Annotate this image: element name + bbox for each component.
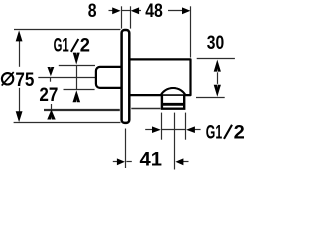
wire: ext line flange top edge [14, 29, 121, 31]
inlet stub [96, 67, 125, 88]
arrowhead: thread bottom arrow (points up) [73, 90, 81, 102]
wire: dim 27 tail below axis line [50, 77, 52, 81]
wire: dim 48 arrow tail [168, 10, 185, 12]
arrowhead: dia75 bottom arrow (points down) [16, 111, 23, 122]
wire: dia75 dim line lower [19, 88, 21, 112]
wire: dim 41 left tail [113, 161, 119, 163]
wire: outlet dim right tail [195, 129, 201, 131]
arrowhead: dim 41 left arrow (points right) [117, 158, 125, 165]
wire: outlet dim line [161, 129, 186, 131]
arrowhead: dim 27 bottom arrow (points up) [47, 110, 55, 120]
outlet connector [161, 95, 186, 109]
wall flange [122, 30, 130, 123]
arrowhead: dim 48 right arrow (points right) [182, 7, 190, 14]
arrowhead: outlet dim left arrow (points right) [152, 126, 161, 133]
arrowhead: dim 41 right arrow (points left) [175, 158, 183, 165]
wire: ext line outlet centerline [174, 113, 176, 170]
wire: thread dim line (between ext) [76, 65, 78, 89]
wire: dim line between ext lines [121, 10, 130, 12]
arrowhead: G12 leader arrow (points down) [73, 53, 80, 65]
wire: dim 27 tail above outlet ext [51, 104, 53, 109]
wire: ext line body right (top) [190, 6, 192, 57]
svg-text:41: 41 [140, 149, 163, 171]
body [129, 59, 190, 95]
wire: dim 8 left arrow tail [109, 10, 115, 12]
label G1/2 outlet [206, 122, 245, 144]
label G1/2 inlet [54, 35, 91, 57]
arrowhead: dim 30 top arrow (points up) [214, 60, 221, 72]
wire: ext line outlet left edge [161, 113, 163, 140]
svg-text:2: 2 [80, 35, 90, 57]
arrowhead: dim 8 right arrow (points left) [131, 7, 139, 14]
svg-text:30: 30 [207, 32, 225, 54]
arrowhead: outlet dim right arrow (points left) [186, 126, 195, 133]
svg-text:G1: G1 [54, 35, 69, 57]
arrowhead: dia75 top arrow (points up) [16, 30, 23, 41]
wire: ext line body bottom (right) [196, 97, 225, 99]
wire: ext line outlet right edge [185, 113, 187, 140]
wire: ext line stub top [59, 65, 95, 67]
svg-text:8: 8 [88, 0, 97, 22]
wire: dim 8 right arrow tail [138, 10, 141, 12]
arrowhead: dim 27 top arrow (points down) [48, 67, 55, 76]
wire: ext line stub axis [38, 77, 95, 79]
wire: ext line outlet end (left of flange) [44, 109, 120, 111]
svg-text:G1: G1 [206, 122, 222, 144]
wire: ext line stub bottom [64, 89, 95, 91]
arrowhead: dim 30 bottom arrow (points down) [214, 85, 221, 97]
svg-text:75: 75 [15, 69, 34, 91]
wire: dia75 dim line upper [19, 41, 21, 67]
wire: ext line flange left (top) [121, 6, 123, 28]
wire: ext line flange front face (bottom) [125, 129, 127, 169]
svg-text:2: 2 [234, 122, 245, 144]
wire: dim 41 right tail [183, 161, 189, 163]
wire: dim 30 line [217, 71, 219, 86]
wire: dim 41 line stub [126, 161, 131, 163]
diameter symbol of dia75 [2, 72, 14, 86]
wire: ext line flange bottom edge [14, 122, 121, 124]
wire: ext line flange right (top) [130, 6, 132, 28]
wire: ext line outlet end (right of flange) [131, 108, 160, 110]
wire: ext line body top (right) [197, 58, 235, 60]
outlet dome [161, 88, 185, 95]
svg-text:27: 27 [39, 84, 58, 106]
wire: outlet dim left tail [145, 129, 152, 131]
svg-text:48: 48 [145, 0, 163, 22]
arrowhead: dim 8 left arrow (points right) [112, 7, 120, 14]
